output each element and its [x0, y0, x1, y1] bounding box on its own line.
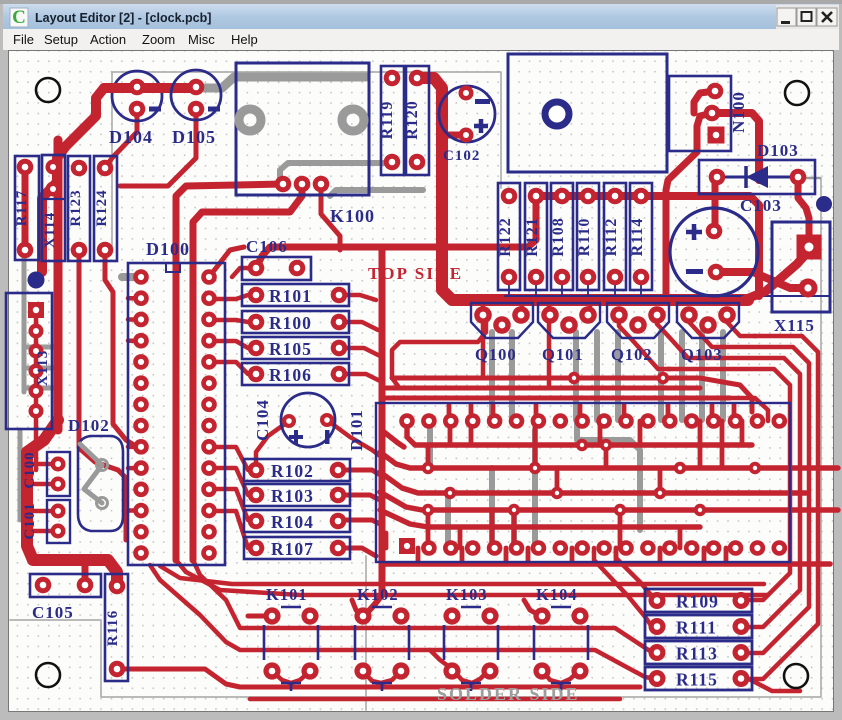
- diode D105: [171, 70, 221, 147]
- wire C102 stub: [440, 132, 466, 139]
- svg-text:C106: C106: [246, 237, 288, 256]
- wire d100 left stubs: [128, 298, 141, 510]
- wire D103 right S: [798, 177, 809, 247]
- connector X114: [42, 155, 65, 261]
- resistor R114: [629, 183, 652, 290]
- svg-text:Q103: Q103: [681, 345, 723, 364]
- svg-text:R122: R122: [497, 217, 514, 257]
- svg-text:D100: D100: [146, 239, 190, 259]
- wire bus y347: [722, 347, 809, 653]
- wire c106 left leg: [209, 247, 256, 277]
- wire r123 down: [79, 250, 126, 540]
- resistor R121: [524, 183, 547, 290]
- wire D105 lead: [120, 109, 196, 186]
- relay K100: [236, 63, 375, 226]
- svg-text:R104: R104: [271, 512, 314, 532]
- resistor R109: [645, 589, 752, 612]
- resistor R101: [242, 284, 349, 306]
- wire N100 pad2 right: [712, 113, 759, 180]
- wire gray Q legs: [492, 332, 723, 420]
- wire R117 column: [25, 140, 58, 430]
- svg-text:R109: R109: [676, 592, 719, 612]
- wire c106 vertical: [297, 247, 382, 616]
- svg-text:Q102: Q102: [611, 345, 653, 364]
- svg-text:K104: K104: [536, 585, 578, 604]
- svg-text:K103: K103: [446, 585, 488, 604]
- svg-text:D102: D102: [68, 416, 110, 435]
- svg-text:Setup: Setup: [44, 32, 78, 47]
- wire K100 to D100 right: [193, 184, 302, 560]
- wire gray D100 pin1 stub: [122, 273, 141, 281]
- regulator N100 pins: [669, 76, 748, 151]
- wire power to X115: [744, 254, 806, 300]
- wire q stub: [483, 302, 590, 388]
- wire X115 square up: [745, 246, 809, 248]
- resistor R105: [242, 337, 349, 359]
- svg-text:X115: X115: [774, 316, 815, 335]
- svg-text:Help: Help: [231, 32, 258, 47]
- svg-text:C104: C104: [253, 399, 272, 441]
- wire r124 down: [105, 250, 137, 447]
- wire bus y358: [698, 358, 800, 627]
- wire d101 vias: [422, 372, 761, 516]
- relay K103: [443, 585, 498, 691]
- resistor R123: [68, 156, 90, 261]
- node SOLDER SIDE: [437, 684, 580, 704]
- regulator N100 body: [508, 54, 667, 172]
- node blue stubs: [509, 277, 641, 296]
- resistor R119: [379, 66, 404, 175]
- node TOP SIDE: [368, 264, 463, 283]
- capacitor C106: [242, 237, 311, 280]
- svg-text:D104: D104: [109, 127, 153, 147]
- wire c100 stubs: [33, 464, 58, 531]
- wire d101 buses: [380, 405, 838, 564]
- svg-text:R124: R124: [94, 189, 110, 226]
- svg-text:Q100: Q100: [475, 345, 517, 364]
- svg-text:Action: Action: [90, 32, 126, 47]
- wire c105 stub: [82, 563, 89, 580]
- resistor R122: [497, 183, 520, 290]
- svg-text:R110: R110: [576, 218, 593, 257]
- svg-text:C103: C103: [740, 196, 782, 215]
- svg-text:R106: R106: [269, 365, 312, 385]
- svg-text:R103: R103: [271, 486, 314, 506]
- wire d101 bottom fans: [594, 548, 800, 691]
- resistor R100: [242, 311, 349, 333]
- wire top-left snake: [42, 88, 196, 272]
- wire gray right curve: [535, 421, 640, 530]
- wire bus y398ext: [730, 398, 768, 421]
- mounting holes: [36, 78, 809, 688]
- wire left thick L: [27, 420, 117, 586]
- transistor Q102: [607, 303, 669, 364]
- svg-text:R105: R105: [269, 339, 312, 359]
- svg-text:R112: R112: [603, 218, 620, 257]
- resistor R108: [550, 183, 573, 290]
- ic D101: [347, 403, 790, 562]
- wire C106 bus: [256, 198, 536, 268]
- wire N100 pad1 arc: [694, 91, 715, 113]
- capacitor C102: [439, 86, 495, 165]
- svg-text:K101: K101: [266, 585, 308, 604]
- resistor R110: [576, 183, 599, 290]
- svg-text:R101: R101: [269, 286, 312, 306]
- wire gray top bar: [204, 77, 366, 88]
- svg-text:R102: R102: [271, 461, 314, 481]
- connector X113: [6, 293, 52, 429]
- svg-text:R115: R115: [676, 670, 718, 690]
- wire C103 minus to X115: [716, 272, 808, 288]
- svg-text:N100: N100: [729, 91, 748, 133]
- node blue line: [505, 295, 830, 297]
- wire x113 column: [34, 318, 39, 470]
- wire k hooks: [248, 600, 580, 683]
- svg-text:R111: R111: [676, 618, 717, 638]
- svg-text:Zoom: Zoom: [142, 32, 175, 47]
- wire bus y369: [668, 369, 790, 600]
- transistor Q103: [677, 303, 739, 364]
- svg-text:C100: C100: [22, 451, 38, 488]
- capacitor C103: [670, 196, 782, 296]
- resistor R112: [603, 183, 626, 290]
- wire gray left column: [20, 215, 57, 520]
- resistor R103: [244, 484, 350, 506]
- svg-text:R119: R119: [379, 101, 396, 140]
- svg-text:R114: R114: [629, 218, 646, 257]
- svg-text:C: C: [12, 7, 26, 28]
- svg-text:R108: R108: [550, 217, 567, 257]
- wire gray K100 internal: [280, 163, 423, 196]
- wire gray D103 stub: [798, 177, 820, 180]
- wire gray mid verticals: [430, 429, 535, 544]
- resistor R117: [14, 156, 39, 260]
- wire q fan stubs: [619, 315, 756, 369]
- wire K100 pad3 down: [321, 184, 340, 250]
- via blue: [816, 196, 832, 212]
- wire c104 stubs: [256, 420, 380, 468]
- wire K100 to D100 left: [176, 184, 283, 560]
- diode D104: [104, 71, 196, 147]
- wire d100 right fan: [209, 295, 256, 548]
- resistor R111: [645, 615, 752, 638]
- svg-text:Q101: Q101: [542, 345, 584, 364]
- wire D104 lead: [105, 109, 137, 168]
- transistor Q101: [538, 303, 600, 364]
- resistor R106: [242, 363, 349, 385]
- relay K101: [263, 585, 318, 691]
- resistor R124: [94, 156, 117, 261]
- resistor R102: [244, 459, 350, 481]
- svg-text:D101: D101: [347, 409, 366, 451]
- svg-text:R107: R107: [271, 539, 314, 559]
- title bar: [3, 4, 839, 29]
- svg-text:R121: R121: [524, 217, 541, 257]
- via blue left: [28, 272, 45, 289]
- svg-text:R100: R100: [269, 313, 312, 333]
- resistor R120: [404, 66, 429, 175]
- menu bar: [3, 29, 839, 50]
- resistor R107: [244, 537, 350, 559]
- svg-text:R117: R117: [14, 190, 30, 227]
- svg-text:File: File: [13, 32, 34, 47]
- wire R121 bar: [536, 196, 759, 296]
- relay K102: [354, 585, 409, 691]
- svg-text:D105: D105: [172, 127, 216, 147]
- svg-text:R123: R123: [68, 189, 84, 226]
- svg-text:TOP SIDE: TOP SIDE: [368, 264, 463, 283]
- wire D103 to C103: [712, 177, 719, 231]
- svg-text:X113: X113: [35, 350, 51, 387]
- resistor R104: [244, 510, 350, 532]
- svg-text:Layout Editor [2] - [clock.pcb: Layout Editor [2] - [clock.pcb]: [35, 11, 211, 25]
- diode D103: [699, 141, 815, 194]
- capacitor C101: [22, 500, 70, 543]
- svg-text:R120: R120: [404, 100, 421, 140]
- wire bottom buses: [117, 560, 768, 699]
- resistor R116: [105, 574, 128, 681]
- transistor Q100: [471, 303, 533, 364]
- svg-text:C101: C101: [22, 502, 38, 539]
- relay K104: [533, 585, 588, 691]
- svg-text:K102: K102: [357, 585, 399, 604]
- wire bus y336: [749, 336, 818, 679]
- svg-text:R113: R113: [676, 644, 718, 664]
- capacitor C105: [30, 574, 101, 622]
- window buttons: [777, 8, 837, 26]
- capacitor C100: [22, 451, 70, 496]
- resistor R113: [645, 641, 752, 664]
- svg-text:R116: R116: [105, 610, 121, 647]
- svg-text:SOLDER SIDE: SOLDER SIDE: [437, 684, 580, 704]
- wire N100 chain down: [666, 113, 712, 296]
- wire mid buses: [382, 315, 752, 412]
- diode D102: [68, 416, 123, 531]
- connector X115: [772, 222, 830, 335]
- capacitor C104: [253, 393, 335, 447]
- wire r10x right legs: [338, 295, 382, 556]
- svg-text:C105: C105: [32, 603, 74, 622]
- svg-text:X114: X114: [42, 212, 58, 249]
- svg-text:Misc: Misc: [188, 32, 215, 47]
- svg-text:K100: K100: [330, 206, 375, 226]
- resistor R115: [645, 667, 752, 690]
- svg-text:C102: C102: [443, 148, 480, 164]
- wire R120 power: [417, 78, 748, 300]
- ic D100 body: [128, 239, 225, 565]
- svg-text:D103: D103: [757, 141, 799, 160]
